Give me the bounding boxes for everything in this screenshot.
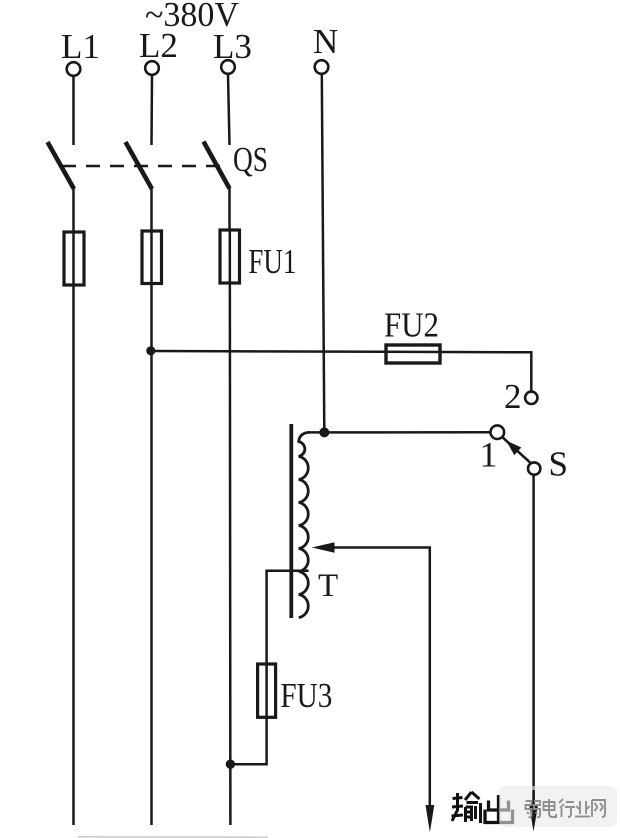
fuse FU1 pole 2 [142, 231, 162, 284]
switch S contact 2 terminal [525, 392, 537, 404]
svg-text:L2: L2 [139, 26, 178, 65]
svg-text:FU3: FU3 [280, 676, 332, 715]
output arrowhead 2 (redrawn over watermark) [532, 790, 535, 806]
svg-text:L1: L1 [61, 27, 100, 66]
wire transformer top to switch S contact 1 [308, 431, 490, 434]
watermark char 业 [575, 801, 590, 817]
wire L3 terminal to switch [228, 74, 230, 145]
transformer T winding [299, 432, 310, 617]
wire L2 through fuse down to bottom [150, 232, 153, 825]
switch QS pole 2 blade [126, 142, 153, 189]
switch S contact 1 terminal [491, 425, 505, 439]
svg-text:L3: L3 [213, 27, 252, 66]
switch S blade arrowhead [506, 441, 521, 456]
junction node on L3 [226, 760, 235, 769]
wire control branch from L2 to fuse FU2 and switch S terminal 2 [151, 351, 531, 391]
label 出 (output char 2) [485, 795, 513, 823]
terminal N [315, 60, 329, 74]
output arrowhead 1 [426, 805, 435, 832]
moving tap arrowhead [312, 542, 335, 553]
watermark char 网 [592, 800, 605, 817]
svg-text:QS: QS [233, 140, 268, 179]
transformer T core bar [289, 424, 293, 618]
fuse FU1 pole 3 [220, 230, 240, 283]
wire L2 terminal to switch [150, 75, 153, 145]
terminal L3 [221, 60, 235, 74]
wire L1 through fuse down to bottom [72, 233, 75, 825]
scan smudge bottom edge [78, 836, 268, 838]
svg-text:FU1: FU1 [248, 242, 296, 281]
fuse FU3 [258, 664, 276, 717]
wire lower tap to fuse FU3 [267, 571, 309, 665]
svg-text:FU2: FU2 [384, 306, 439, 345]
wire N terminal down to transformer [322, 74, 325, 432]
svg-text:2: 2 [504, 377, 522, 416]
watermark char 电 [544, 799, 557, 817]
QS mechanical link dashed line [62, 165, 228, 168]
wire L3 through fuse down to bottom [229, 231, 232, 825]
wire L3 switch to fuse [228, 188, 231, 231]
label 输 (output char 1) [452, 792, 481, 823]
svg-text:N: N [313, 22, 338, 61]
wire L1 terminal to switch [72, 76, 75, 145]
svg-text:1: 1 [480, 435, 498, 475]
watermark char 弱 [526, 801, 541, 817]
wire FU3 through and down to L3 [230, 665, 266, 764]
switch S blade [503, 438, 531, 464]
junction node on L2 [146, 346, 155, 355]
svg-text:S: S [549, 445, 568, 484]
wire L2 switch to fuse [150, 188, 153, 232]
switch S pivot terminal [528, 462, 540, 474]
wire moving tap to output [333, 548, 430, 806]
wire switch S pivot down to output [532, 475, 535, 806]
terminal L1 [67, 62, 81, 76]
svg-text:T: T [318, 568, 338, 604]
watermark background halo [499, 786, 617, 827]
switch QS pole 1 blade [48, 142, 75, 189]
wire L1 switch to fuse [72, 188, 75, 233]
junction node N / transformer top [319, 427, 329, 437]
terminal L2 [145, 61, 159, 75]
switch QS pole 3 blade [204, 142, 230, 189]
watermark char 行 [559, 799, 575, 817]
fuse FU1 pole 1 [64, 232, 84, 285]
fuse FU2 [386, 345, 440, 363]
